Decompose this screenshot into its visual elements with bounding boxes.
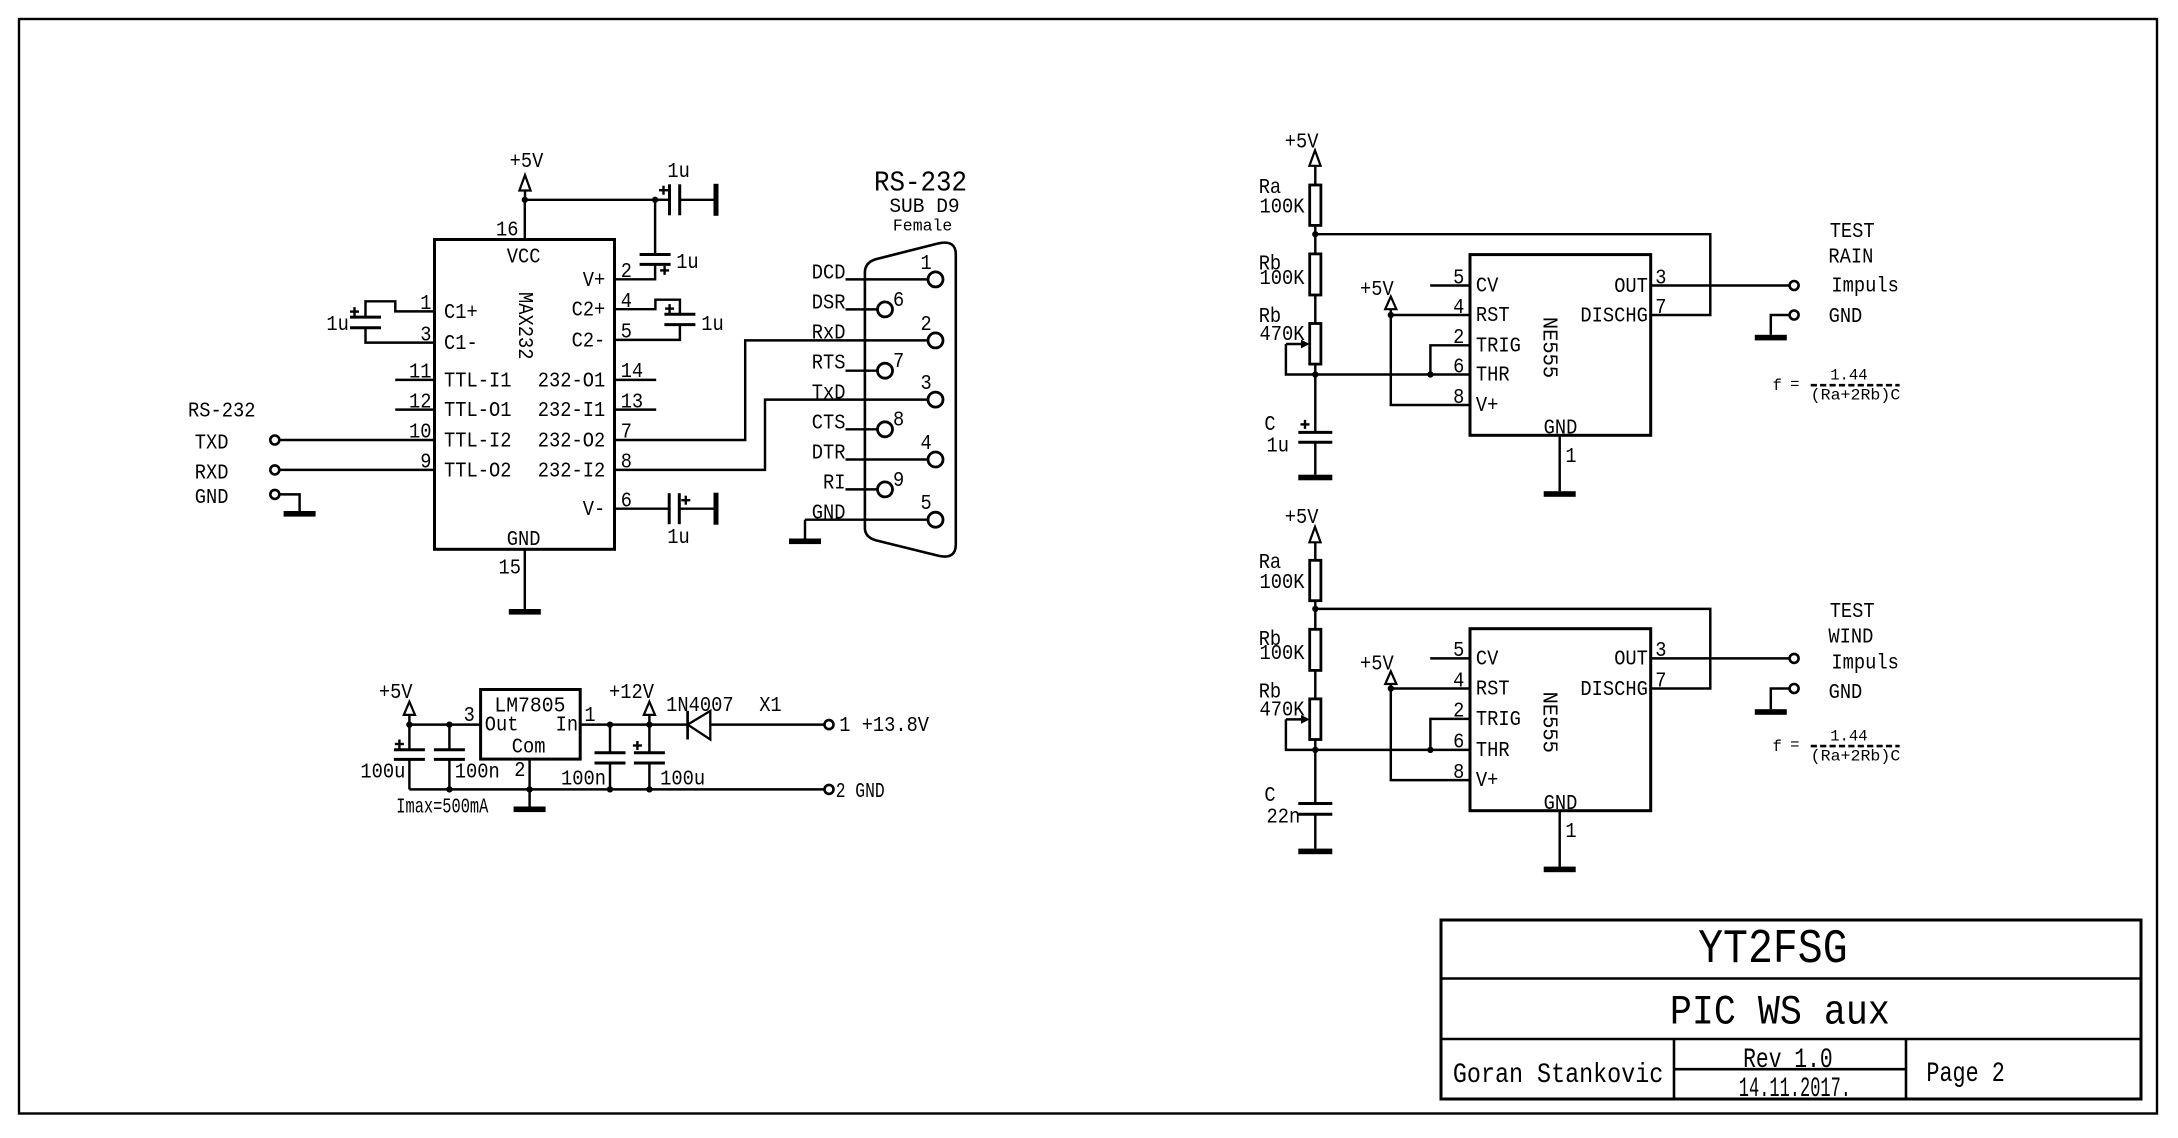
wire wiper to THR node (WIND) bbox=[1286, 719, 1315, 750]
wire RI stub to pin 9 bbox=[846, 488, 878, 490]
svg-text:C2+: C2+ bbox=[572, 300, 606, 323]
svg-text:6: 6 bbox=[893, 290, 904, 313]
svg-text:+5V: +5V bbox=[510, 151, 544, 174]
svg-text:Rev 1.0: Rev 1.0 bbox=[1743, 1045, 1833, 1076]
svg-text:232-O2: 232-O2 bbox=[538, 431, 606, 454]
svg-text:3: 3 bbox=[1655, 267, 1666, 290]
capacitor C 1u (VCC bypass) polarity + bbox=[659, 189, 668, 191]
wire OUT pin 3 to Impuls terminal (WIND) bbox=[1651, 657, 1790, 659]
terminal Impuls circle (RAIN) bbox=[1790, 281, 1799, 290]
pin stub CV pin 5 (RAIN) bbox=[1430, 284, 1470, 286]
wire NE555 pin 1 to ground (RAIN) bbox=[1558, 435, 1560, 491]
svg-text:1.44: 1.44 bbox=[1830, 727, 1867, 745]
capacitor 1u at V+ polarity + bbox=[660, 269, 669, 271]
junction dot VCC node bbox=[522, 197, 528, 203]
SUB-D9 pin 8 circle bbox=[878, 422, 893, 437]
svg-text:NE555: NE555 bbox=[1537, 692, 1560, 753]
svg-text:1u: 1u bbox=[676, 252, 699, 275]
wire LM7805 pin 2 to bottom rail bbox=[528, 759, 530, 789]
SUB-D9 pin 7 circle bbox=[878, 363, 893, 378]
svg-text:7: 7 bbox=[893, 351, 904, 374]
timer IC NE555 (WIND) body bbox=[1470, 629, 1651, 811]
svg-text:100K: 100K bbox=[1260, 643, 1305, 666]
ground symbol (test terminal RAIN) bbox=[1755, 335, 1787, 341]
svg-text:C2-: C2- bbox=[572, 331, 606, 354]
capacitor 1u at V+ pin 2 plates bbox=[640, 253, 671, 256]
svg-text:RST: RST bbox=[1476, 305, 1510, 328]
title block divider under PIC WS aux bbox=[1441, 1038, 2141, 1041]
svg-text:2: 2 bbox=[514, 760, 525, 783]
ground symbol (test terminal WIND) bbox=[1755, 709, 1787, 715]
wire LM7805 pin 1 to diode bbox=[580, 723, 687, 725]
power +5V arrow symbol (RST WIND) bbox=[1385, 671, 1396, 684]
resistor Rb 100K (WIND) body bbox=[1310, 629, 1321, 670]
wire V- cap to ground bar bbox=[679, 507, 713, 509]
svg-text:10: 10 bbox=[409, 422, 432, 445]
wire MAX232 pin 1 to C1 cap bbox=[366, 301, 435, 317]
ground symbol (VCC bypass cap) bbox=[714, 184, 719, 216]
wire VCC node to cap left plate bbox=[655, 199, 669, 201]
svg-text:4: 4 bbox=[921, 433, 932, 456]
capacitor C timing (RAIN) polarity + bbox=[1301, 423, 1310, 425]
svg-text:100u: 100u bbox=[360, 762, 405, 785]
svg-text:100n: 100n bbox=[455, 762, 500, 785]
timer IC NE555 (RAIN) body bbox=[1470, 255, 1651, 436]
svg-text:C: C bbox=[1264, 785, 1275, 808]
wire TRIG pin 2 to THR node (WIND) bbox=[1430, 719, 1470, 750]
svg-text:V+: V+ bbox=[583, 270, 606, 293]
wire GND stub to pin 5 bbox=[805, 518, 928, 520]
svg-text:CV: CV bbox=[1476, 648, 1499, 671]
svg-text:2: 2 bbox=[621, 261, 632, 284]
wire THR node to NE555 pin 6 (RAIN) bbox=[1315, 373, 1470, 375]
svg-text:DCD: DCD bbox=[812, 262, 846, 285]
junction dot bottom rail at pin 2 bbox=[526, 786, 532, 792]
svg-text:1N4007: 1N4007 bbox=[666, 695, 734, 718]
svg-text:+5V: +5V bbox=[379, 682, 413, 705]
capacitor 100n (output) wire down bbox=[448, 725, 450, 750]
SUB-D9 pin 2 circle bbox=[928, 333, 943, 348]
svg-text:+12V: +12V bbox=[609, 682, 654, 705]
svg-text:2 GND: 2 GND bbox=[836, 781, 885, 804]
terminal GND circle (RAIN) bbox=[1790, 311, 1799, 320]
wire node A feedback to DISCHG pin 7 (RAIN) bbox=[1315, 234, 1710, 315]
title block vertical divider left of Rev cell bbox=[1673, 1039, 1676, 1099]
svg-text:9: 9 bbox=[893, 470, 904, 493]
junction dot node A (WIND) bbox=[1312, 606, 1318, 612]
svg-text:3: 3 bbox=[921, 373, 932, 396]
svg-text:5: 5 bbox=[621, 322, 632, 345]
wire out rail to LM7805 pin 3 bbox=[409, 723, 480, 725]
svg-text:X1: X1 bbox=[759, 695, 782, 718]
wire RST +5V to RST node (WIND) bbox=[1390, 684, 1392, 689]
wire RST node down to V+ pin 8 (RAIN) bbox=[1391, 315, 1470, 405]
resistor Ra 100K (RAIN) body bbox=[1310, 185, 1321, 225]
pin stub MAX232 pin 13 bbox=[615, 408, 657, 410]
wire +5V arrow to out rail bbox=[408, 715, 410, 725]
svg-text:DISCHG: DISCHG bbox=[1580, 679, 1648, 702]
wire Ra to node A (WIND) bbox=[1314, 601, 1316, 609]
ground symbol (MAX232 pin 15) bbox=[509, 609, 541, 615]
wire GND down to ground bar (SUB-D9) bbox=[804, 520, 806, 539]
svg-text:V+: V+ bbox=[1476, 395, 1499, 418]
svg-text:OUT: OUT bbox=[1614, 649, 1648, 672]
junction dot RST node (WIND) bbox=[1388, 685, 1394, 691]
svg-text:Out: Out bbox=[485, 715, 519, 738]
regulator U2 LM7805 body bbox=[481, 690, 581, 760]
svg-text:Goran Stankovic: Goran Stankovic bbox=[1453, 1060, 1663, 1091]
ground symbol (timing cap WIND) bbox=[1298, 849, 1332, 855]
terminal RXD circle bbox=[270, 465, 279, 474]
svg-text:DISCHG: DISCHG bbox=[1580, 305, 1648, 328]
junction dot bottom rail at input 100u bbox=[646, 786, 652, 792]
wire GND terminal to ground (WIND) bbox=[1771, 689, 1790, 710]
wire THR node to NE555 pin 6 (WIND) bbox=[1315, 749, 1470, 751]
svg-text:RxD: RxD bbox=[812, 322, 846, 345]
svg-text:C1-: C1- bbox=[444, 333, 478, 356]
wire Rb to pot (WIND) bbox=[1314, 670, 1316, 699]
wire diode anode to X1-1 bbox=[710, 723, 824, 725]
svg-text:1: 1 bbox=[1565, 821, 1576, 844]
svg-text:1: 1 bbox=[1565, 446, 1576, 469]
svg-text:GND: GND bbox=[507, 529, 541, 552]
potentiometer Rb 470K (RAIN) body bbox=[1310, 324, 1321, 365]
junction dot in rail at 100n bbox=[607, 721, 613, 727]
svg-text:RAIN: RAIN bbox=[1828, 247, 1873, 270]
title block outline bbox=[1441, 920, 2141, 1099]
junction dot out rail at 100u bbox=[406, 721, 412, 727]
svg-text:1.44: 1.44 bbox=[1830, 367, 1867, 385]
capacitor 100n (output) plates bbox=[434, 748, 465, 751]
svg-text:1u: 1u bbox=[1267, 436, 1290, 459]
wire MAX232 pin 8 232-I2 to SUB-D9 pin 3 TxD bbox=[615, 400, 929, 470]
wire timing cap to ground (WIND) bbox=[1314, 814, 1316, 848]
svg-text:6: 6 bbox=[621, 490, 632, 513]
wire pin 2 node to ground bbox=[528, 789, 530, 806]
svg-text:2: 2 bbox=[1453, 327, 1464, 350]
wire THR node down to timing cap (WIND) bbox=[1314, 750, 1316, 804]
SUB-D9 pin 9 circle bbox=[878, 482, 893, 497]
svg-text:=: = bbox=[1790, 375, 1799, 393]
svg-text:TRIG: TRIG bbox=[1476, 335, 1521, 358]
wire timing cap to ground (RAIN) bbox=[1314, 442, 1316, 475]
power +5V arrow symbol (LM7805 out) bbox=[404, 702, 415, 715]
capacitor 100u (input) polarity + bbox=[633, 744, 642, 746]
potentiometer wiper arrow (RAIN) bbox=[1286, 343, 1303, 345]
formula fraction bar (RAIN) bbox=[1811, 384, 1900, 387]
power +5V arrow symbol (MAX232) bbox=[519, 175, 530, 190]
ground symbol (SUB-D9 GND) bbox=[789, 539, 821, 545]
title block divider between Rev and date bbox=[1674, 1068, 1906, 1071]
capacitor 100u (input) plates bbox=[634, 751, 665, 754]
wire V+ branch down to cap bbox=[654, 200, 656, 255]
wire MAX232 pin 4 to C2 cap bbox=[615, 300, 680, 315]
wire MAX232 pin 15 to ground bbox=[524, 549, 526, 609]
capacitor 100n (input) plates bbox=[595, 751, 626, 754]
wire THR node down to timing cap (RAIN) bbox=[1314, 375, 1316, 433]
svg-text:2: 2 bbox=[921, 314, 932, 337]
svg-text:YT2FSG: YT2FSG bbox=[1698, 922, 1848, 977]
wire RST node to NE555 pin 4 (WIND) bbox=[1391, 687, 1470, 689]
svg-text:5: 5 bbox=[1453, 640, 1464, 663]
SUB-D9 pin 4 circle bbox=[928, 452, 943, 467]
wire OUT pin 3 to Impuls terminal (RAIN) bbox=[1651, 284, 1790, 286]
power +5V arrow symbol (RST RAIN) bbox=[1385, 297, 1396, 310]
svg-text:Com: Com bbox=[512, 737, 546, 760]
svg-text:(Ra+2Rb)C: (Ra+2Rb)C bbox=[1811, 747, 1901, 765]
terminal X1-2 circle bbox=[825, 785, 834, 794]
capacitor 100u (output) polarity + bbox=[395, 743, 404, 745]
op IC MAX232 U1 body bbox=[435, 240, 615, 550]
wire +5V to Ra (RAIN) bbox=[1314, 166, 1316, 185]
resistor Ra 100K (WIND) body bbox=[1310, 560, 1321, 600]
wire +12V arrow to in rail bbox=[648, 715, 650, 725]
wire DCD stub to pin 1 bbox=[846, 278, 929, 280]
capacitor 100u (input) wire down bbox=[648, 725, 650, 753]
wire C2 cap to MAX232 pin 5 bbox=[615, 325, 680, 340]
capacitor C2 polarity + bbox=[665, 307, 674, 309]
diode D1 1N4007 cathode bar bbox=[686, 711, 689, 740]
svg-text:Page 2: Page 2 bbox=[1926, 1059, 2004, 1090]
ground symbol (LM7805 Com) bbox=[514, 807, 546, 813]
wire NE555 pin 1 to ground (WIND) bbox=[1558, 811, 1560, 867]
bottom GND rail bbox=[409, 788, 824, 790]
terminal X1-1 circle bbox=[825, 720, 834, 729]
wire RXD to MAX232 pin 9 bbox=[279, 469, 434, 471]
terminal GND circle (WIND) bbox=[1790, 684, 1799, 693]
svg-text:THR: THR bbox=[1476, 365, 1510, 388]
svg-text:100n: 100n bbox=[561, 768, 606, 791]
svg-text:14.11.2017.: 14.11.2017. bbox=[1739, 1074, 1851, 1105]
capacitor C1 polarity + bbox=[350, 310, 359, 312]
wire node A to Rb (WIND) bbox=[1314, 609, 1316, 629]
diode D1 1N4007 triangle bbox=[688, 711, 711, 740]
pin stub MAX232 pin 11 bbox=[395, 379, 434, 381]
junction dot THR node at pot (RAIN) bbox=[1312, 371, 1318, 377]
svg-text:8: 8 bbox=[1453, 387, 1464, 410]
svg-text:VCC: VCC bbox=[507, 247, 541, 270]
svg-text:1: 1 bbox=[921, 253, 932, 276]
junction dot in rail at 100u/+12V bbox=[646, 721, 652, 727]
wire DTR stub to pin 4 bbox=[846, 458, 929, 460]
svg-text:f: f bbox=[1773, 377, 1782, 395]
svg-text:TTL-O1: TTL-O1 bbox=[444, 400, 512, 423]
wire CTS stub to pin 8 bbox=[846, 428, 878, 430]
wire MAX232 pin 6 to V- cap bbox=[615, 507, 670, 509]
capacitor 1u at V- plates bbox=[668, 493, 671, 524]
power +5V arrow symbol (WIND oscillator) bbox=[1309, 527, 1320, 542]
wire cap to MAX232 pin 2 bbox=[615, 264, 656, 279]
capacitor C2 1u plates bbox=[664, 313, 695, 316]
svg-text:100K: 100K bbox=[1260, 268, 1305, 291]
svg-text:232-I1: 232-I1 bbox=[538, 400, 606, 423]
wire RST node down to V+ pin 8 (WIND) bbox=[1391, 689, 1470, 781]
wire input 100u to bottom rail bbox=[648, 763, 650, 789]
svg-text:(Ra+2Rb)C: (Ra+2Rb)C bbox=[1811, 387, 1901, 405]
svg-text:NE555: NE555 bbox=[1537, 317, 1560, 378]
capacitor 100n (input) wire down bbox=[609, 725, 611, 753]
svg-text:5: 5 bbox=[921, 493, 932, 516]
svg-text:V-: V- bbox=[583, 499, 606, 522]
svg-text:4: 4 bbox=[621, 291, 632, 314]
svg-text:=: = bbox=[1790, 736, 1799, 754]
svg-text:6: 6 bbox=[1453, 732, 1464, 755]
pin stub CV pin 5 (WIND) bbox=[1430, 657, 1470, 659]
svg-text:100u: 100u bbox=[660, 768, 705, 791]
svg-text:8: 8 bbox=[1453, 762, 1464, 785]
wire TXD to MAX232 pin 10 bbox=[279, 439, 434, 441]
svg-text:7: 7 bbox=[1655, 297, 1666, 320]
svg-text:OUT: OUT bbox=[1614, 276, 1648, 299]
svg-text:13: 13 bbox=[621, 392, 644, 415]
svg-text:3: 3 bbox=[1655, 640, 1666, 663]
svg-text:TTL-I2: TTL-I2 bbox=[444, 431, 512, 454]
capacitor C 1u (VCC bypass) plates bbox=[668, 184, 671, 215]
svg-text:GND: GND bbox=[195, 487, 229, 510]
svg-text:2: 2 bbox=[1453, 701, 1464, 724]
ground symbol (timing cap RAIN) bbox=[1298, 475, 1332, 481]
svg-text:3: 3 bbox=[464, 705, 475, 728]
wire RTS stub to pin 7 bbox=[846, 369, 878, 371]
svg-text:CV: CV bbox=[1476, 276, 1499, 299]
svg-text:CTS: CTS bbox=[812, 412, 846, 435]
wire pot bottom to THR node (RAIN) bbox=[1314, 364, 1316, 374]
svg-text:TEST: TEST bbox=[1830, 601, 1875, 624]
svg-text:TxD: TxD bbox=[812, 383, 846, 406]
svg-text:5: 5 bbox=[1453, 267, 1464, 290]
svg-text:WIND: WIND bbox=[1828, 626, 1873, 649]
wire RST +5V to RST node (RAIN) bbox=[1390, 309, 1392, 315]
svg-text:1u: 1u bbox=[701, 314, 724, 337]
connector X2 SUB-D9 outline bbox=[865, 243, 956, 557]
formula fraction bar (WIND) bbox=[1811, 745, 1900, 748]
ground symbol (NE555 pin 1 RAIN) bbox=[1544, 491, 1576, 497]
svg-text:1 +13.8V: 1 +13.8V bbox=[839, 715, 929, 738]
svg-text:Imax=500mA: Imax=500mA bbox=[396, 797, 488, 820]
wire VCC node to MAX232 pin 16 bbox=[524, 200, 526, 240]
wire node A feedback to DISCHG pin 7 (WIND) bbox=[1315, 609, 1710, 689]
svg-text:RTS: RTS bbox=[812, 353, 846, 376]
SUB-D9 pin 3 circle bbox=[928, 392, 943, 407]
wire pot bottom to THR node (WIND) bbox=[1314, 740, 1316, 750]
junction dot bottom rail at input 100n bbox=[607, 786, 613, 792]
svg-text:232-O1: 232-O1 bbox=[538, 370, 606, 393]
power +12V arrow symbol bbox=[644, 702, 655, 715]
svg-text:Female: Female bbox=[893, 218, 952, 237]
svg-text:C1+: C1+ bbox=[444, 302, 478, 325]
svg-text:DSR: DSR bbox=[812, 292, 846, 315]
terminal TXD circle bbox=[270, 436, 279, 445]
svg-text:TEST: TEST bbox=[1830, 221, 1875, 244]
svg-text:4: 4 bbox=[1453, 670, 1464, 693]
pin stub MAX232 pin 12 bbox=[395, 408, 434, 410]
wire GND terminal to ground (RAIN) bbox=[1771, 315, 1790, 335]
svg-text:TXD: TXD bbox=[195, 433, 229, 456]
capacitor C timing (WIND) plates bbox=[1298, 802, 1332, 805]
svg-text:+5V: +5V bbox=[1285, 507, 1319, 530]
svg-text:100K: 100K bbox=[1260, 197, 1305, 220]
junction dot THR/TRIG tie (WIND) bbox=[1427, 747, 1433, 753]
svg-text:9: 9 bbox=[420, 452, 431, 475]
wire TRIG pin 2 to THR node (RAIN) bbox=[1430, 345, 1470, 374]
power +5V arrow symbol (RAIN oscillator) bbox=[1309, 150, 1320, 165]
wire 100u to bottom rail bbox=[408, 759, 410, 789]
svg-text:6: 6 bbox=[1453, 356, 1464, 379]
svg-text:TRIG: TRIG bbox=[1476, 709, 1521, 732]
capacitor C1 1u plates bbox=[350, 316, 381, 319]
svg-text:SUB D9: SUB D9 bbox=[889, 196, 959, 219]
svg-text:V+: V+ bbox=[1476, 770, 1499, 793]
svg-text:DTR: DTR bbox=[812, 443, 846, 466]
wire 100n to bottom rail bbox=[448, 759, 450, 789]
svg-text:1u: 1u bbox=[667, 161, 690, 184]
svg-text:7: 7 bbox=[1655, 670, 1666, 693]
wire Ra to node A (RAIN) bbox=[1314, 225, 1316, 234]
junction dot at V+ cap branch bbox=[652, 197, 658, 203]
capacitor 100u (output) plates bbox=[394, 748, 425, 751]
junction dot THR node at pot (WIND) bbox=[1312, 747, 1318, 753]
terminal Impuls circle (WIND) bbox=[1790, 654, 1799, 663]
wire cap to ground bar bbox=[680, 199, 714, 201]
ground symbol (NE555 pin 1 WIND) bbox=[1544, 867, 1576, 873]
svg-text:1: 1 bbox=[420, 293, 431, 316]
SUB-D9 pin 1 circle bbox=[928, 272, 943, 287]
svg-text:GND: GND bbox=[1829, 306, 1863, 329]
svg-text:RXD: RXD bbox=[195, 462, 229, 485]
svg-text:MAX232: MAX232 bbox=[512, 292, 535, 360]
resistor Rb 100K (RAIN) body bbox=[1310, 254, 1321, 295]
wire wiper to THR node (RAIN) bbox=[1286, 344, 1315, 375]
capacitor 100u (output) wire down bbox=[408, 725, 410, 750]
wire DSR stub to pin 6 bbox=[846, 308, 878, 310]
wire C1 cap to MAX232 pin 3 bbox=[366, 328, 435, 343]
wire RST node to NE555 pin 4 (RAIN) bbox=[1391, 314, 1470, 316]
svg-text:C: C bbox=[1264, 414, 1275, 437]
svg-text:1u: 1u bbox=[326, 314, 349, 337]
svg-text:11: 11 bbox=[409, 362, 432, 385]
svg-text:THR: THR bbox=[1476, 740, 1510, 763]
svg-text:RI: RI bbox=[823, 472, 846, 495]
svg-text:PIC WS aux: PIC WS aux bbox=[1670, 989, 1890, 1037]
junction dot THR/TRIG tie (RAIN) bbox=[1427, 371, 1433, 377]
capacitor 1u at V- polarity + bbox=[681, 499, 690, 501]
svg-text:100K: 100K bbox=[1260, 572, 1305, 595]
svg-text:15: 15 bbox=[499, 558, 522, 581]
svg-text:In: In bbox=[556, 715, 579, 738]
ground symbol (V- cap) bbox=[714, 493, 719, 525]
svg-text:8: 8 bbox=[621, 452, 632, 475]
wire VCC rail to bypass cap bbox=[525, 199, 655, 201]
svg-text:4: 4 bbox=[1453, 297, 1464, 320]
svg-text:1u: 1u bbox=[667, 527, 690, 550]
svg-text:TTL-O2: TTL-O2 bbox=[444, 460, 512, 483]
capacitor C timing (RAIN) plates bbox=[1298, 431, 1332, 434]
svg-text:3: 3 bbox=[420, 324, 431, 347]
junction dot RST node (RAIN) bbox=[1388, 312, 1394, 318]
wire +5V arrow to VCC node bbox=[524, 191, 526, 201]
svg-text:f: f bbox=[1773, 738, 1782, 756]
junction dot out rail at 100n bbox=[446, 721, 452, 727]
svg-text:22n: 22n bbox=[1267, 807, 1301, 830]
wire +5V to Ra (WIND) bbox=[1314, 542, 1316, 560]
svg-text:RST: RST bbox=[1476, 679, 1510, 702]
svg-text:12: 12 bbox=[409, 391, 432, 414]
pin stub MAX232 pin 14 bbox=[615, 379, 657, 381]
wire node A to Rb (RAIN) bbox=[1314, 234, 1316, 254]
title block divider under YT2FSG bbox=[1441, 977, 2141, 980]
title block vertical divider right of date cell bbox=[1905, 1039, 1908, 1099]
svg-text:Impuls: Impuls bbox=[1831, 652, 1899, 675]
